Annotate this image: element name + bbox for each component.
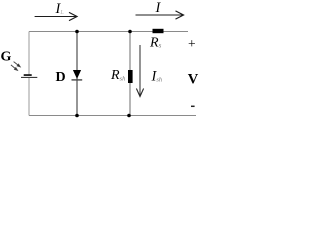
svg-text:Rs: Rs [149,36,162,51]
node junction bottom diode [75,114,79,118]
svg-text:G: G [1,50,12,65]
arrow I current top-right [136,11,184,19]
terminal minus [191,105,195,107]
svg-text:Rsh: Rsh [110,68,125,83]
light arrow 1 [14,62,21,67]
wire diode vertical branch [76,32,78,116]
wire left vertical branch lower [28,78,30,116]
wire left vertical branch [28,32,30,75]
svg-text:IL: IL [55,1,65,17]
photovoltaic cell G top bar [24,74,32,76]
node junction top diode [75,30,79,34]
svg-text:V: V [188,72,199,88]
wire bottom horizontal [29,115,196,117]
svg-text:+: + [188,36,196,51]
diode D triangle [73,70,81,79]
diode D cathode bar [72,79,83,81]
photovoltaic cell G bottom bar [21,76,37,78]
arrow Ish current [136,45,143,97]
light arrow 2 [11,65,18,70]
node junction top shunt [128,30,132,34]
wire top horizontal [29,31,188,33]
svg-text:D: D [56,70,66,85]
resistor Rs body [153,29,164,33]
resistor Rsh body [128,70,133,83]
node junction bottom shunt [127,114,131,118]
wire shunt vertical branch [129,32,131,116]
svg-text:Ish: Ish [151,69,163,85]
arrow IL current top-left [35,12,77,20]
svg-text:I: I [155,0,162,16]
